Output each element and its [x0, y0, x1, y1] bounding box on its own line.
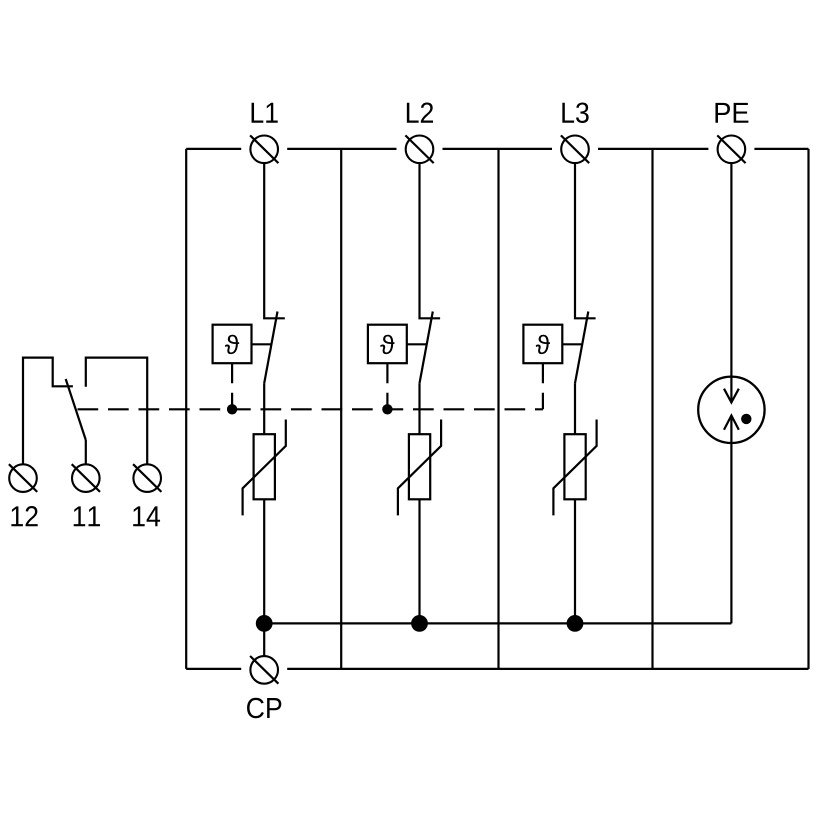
junction dot F1 dashed — [227, 404, 237, 414]
junction dot L1 bus — [256, 615, 273, 632]
terminal 14 — [133, 464, 161, 492]
wire L2 bottom — [418, 499, 420, 623]
wire L3 mid — [574, 383, 576, 434]
thermal box F2 — [368, 325, 407, 364]
varistor R2 — [409, 434, 430, 499]
thermal box F1 — [213, 325, 252, 364]
switch blade L2 — [420, 312, 433, 384]
thermal box F3 — [523, 325, 562, 364]
label L1 — [252, 103, 278, 123]
terminal CP — [250, 656, 278, 684]
thermal link F1 — [252, 343, 272, 345]
wire PE top — [730, 163, 732, 402]
wire L1 top — [264, 163, 285, 318]
enclosure top edge — [186, 148, 808, 150]
wire L3 top — [575, 163, 596, 318]
divider 2 — [497, 149, 499, 669]
varistor R2 stroke — [398, 420, 441, 516]
wire L1 mid — [263, 383, 265, 434]
label PE — [715, 103, 748, 123]
divider 3 — [651, 149, 653, 669]
enclosure bottom edge — [186, 668, 808, 670]
wire L1 to CP — [263, 623, 265, 656]
switch blade L1 — [264, 312, 277, 384]
label CP — [247, 698, 281, 719]
enclosure right edge — [807, 149, 809, 669]
label L2 — [407, 102, 433, 122]
dashed riser F1 — [231, 363, 233, 409]
wire L2 mid — [418, 383, 420, 434]
label 11 — [74, 506, 100, 526]
bottom bus — [264, 622, 731, 624]
label 12 — [11, 506, 37, 526]
thermal link F2 — [407, 343, 427, 345]
wire L3 bottom — [574, 499, 576, 623]
gas indicator dot — [741, 414, 751, 424]
spark gap top arrow — [724, 389, 739, 403]
remote contact 14 hook — [86, 358, 147, 465]
dashed riser F2 — [386, 363, 388, 409]
spark gap wire re-entry — [730, 377, 732, 403]
theta glyph F2 — [380, 335, 394, 354]
remote contact 11 riser — [85, 440, 87, 464]
varistor R3 — [564, 434, 585, 499]
varistor R1 — [254, 434, 275, 499]
wire L2 top — [420, 163, 441, 318]
spark gap F4 — [698, 377, 764, 443]
terminal L2 — [405, 135, 433, 163]
wire L1 bottom — [263, 499, 265, 623]
varistor R3 stroke — [553, 420, 596, 516]
terminal 12 — [9, 464, 37, 492]
enclosure left edge — [185, 149, 187, 669]
terminal 11 — [72, 464, 100, 492]
dashed link line — [78, 408, 543, 410]
terminal PE — [717, 135, 745, 163]
varistor R1 stroke — [243, 420, 286, 516]
terminal L3 — [561, 135, 589, 163]
dashed riser F3 — [542, 363, 544, 409]
divider 1 — [340, 149, 342, 669]
label 14 — [133, 506, 160, 526]
remote contact 12 hook — [23, 358, 73, 465]
thermal link F3 — [562, 343, 582, 345]
junction dot F2 dashed — [382, 404, 392, 414]
remote contact blade — [66, 379, 86, 440]
junction dot L3 bus — [567, 615, 584, 632]
theta glyph F1 — [225, 335, 239, 354]
terminal L1 — [250, 135, 278, 163]
theta glyph F3 — [536, 335, 550, 354]
switch blade L3 — [575, 312, 588, 384]
label L3 — [562, 102, 588, 123]
wire PE bottom — [730, 416, 732, 624]
junction dot L2 bus — [411, 615, 428, 632]
spark gap bottom arrow — [724, 416, 739, 430]
